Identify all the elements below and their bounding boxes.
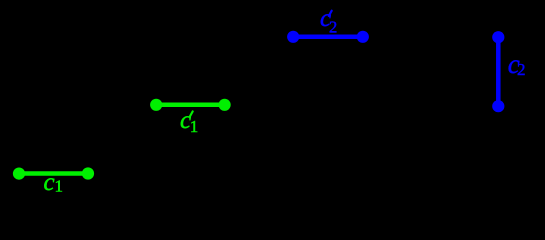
svg-text:c: c: [44, 169, 55, 196]
svg-text:2: 2: [517, 60, 526, 79]
segment c1prime: [150, 99, 231, 111]
svg-text:2: 2: [329, 17, 337, 36]
segment c2: [492, 31, 504, 112]
label c1prime: [180, 107, 198, 136]
svg-text:1: 1: [55, 177, 64, 196]
label c2: [508, 49, 526, 79]
svg-text:1: 1: [190, 117, 199, 136]
label c1: [44, 169, 64, 196]
label c2prime: [320, 5, 337, 36]
segment c1: [13, 167, 94, 179]
segment c2prime: [287, 31, 369, 43]
